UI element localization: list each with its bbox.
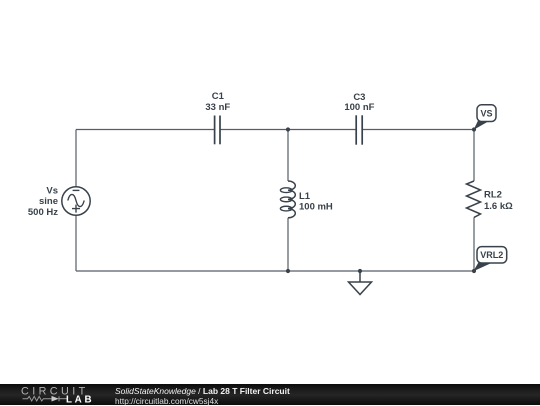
svg-text:LAB: LAB [66,394,94,405]
svg-text:100 nF: 100 nF [344,102,374,113]
svg-text:VS: VS [480,109,492,119]
svg-text:VRL2: VRL2 [480,250,503,260]
svg-text:500 Hz: 500 Hz [28,207,58,218]
svg-text:100 mH: 100 mH [299,202,333,213]
svg-text:Vs: Vs [46,185,58,196]
svg-text:C1: C1 [212,91,225,102]
svg-text:33 nF: 33 nF [205,102,230,113]
svg-text:L1: L1 [299,191,311,202]
svg-text:1.6 kΩ: 1.6 kΩ [484,201,513,212]
svg-text:sine: sine [39,196,58,207]
svg-text:RL2: RL2 [484,189,502,200]
